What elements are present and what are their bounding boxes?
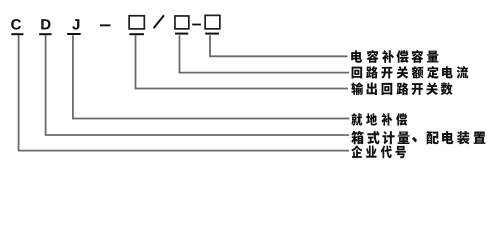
wire C to enterprise-code label bbox=[19, 35, 349, 150]
letter D bbox=[41, 19, 50, 29]
separator dash 2 bbox=[192, 24, 201, 26]
label 回路开关额定电流 bbox=[352, 66, 469, 79]
digit box 3 bbox=[205, 15, 220, 29]
wire box2 to switch-current label bbox=[180, 35, 350, 72]
tick under C bbox=[11, 33, 23, 35]
digit box 1 bbox=[129, 16, 144, 29]
tick under D bbox=[39, 33, 52, 35]
label 箱式计量、配电装置 bbox=[351, 131, 485, 145]
tick under box 3 bbox=[205, 33, 219, 35]
label 就地补偿 bbox=[351, 113, 407, 126]
wire box1 to switch-count label bbox=[136, 35, 349, 88]
tick under box 2 bbox=[175, 33, 188, 35]
label 企业代号 bbox=[351, 145, 406, 158]
separator dash 1 bbox=[100, 24, 111, 26]
letter C bbox=[11, 19, 21, 29]
wire J to local-compensation label bbox=[73, 35, 350, 118]
label 电容补偿容量 bbox=[351, 50, 438, 63]
tick under box 1 bbox=[129, 33, 144, 35]
wire D to box-metering label bbox=[46, 35, 350, 135]
wire box3 to capacitor-capacity label bbox=[210, 35, 348, 56]
digit box 2 bbox=[175, 16, 189, 29]
label 输出回路开关数 bbox=[351, 82, 452, 95]
separator slash bbox=[154, 15, 164, 28]
tick under J bbox=[67, 33, 81, 35]
letter J bbox=[72, 19, 79, 29]
